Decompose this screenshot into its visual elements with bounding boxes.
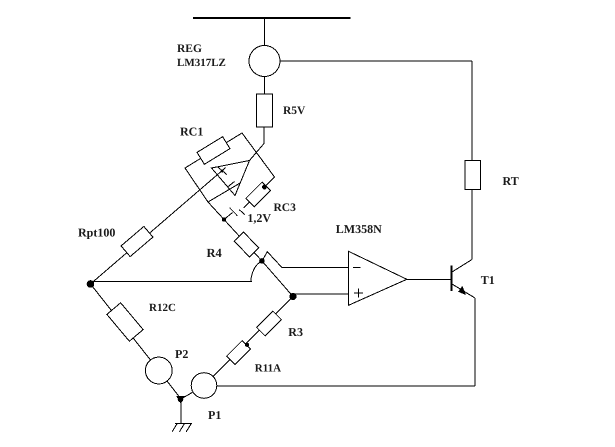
battery 1,2V lead upper wire to RC3 and loop corner bbox=[244, 177, 275, 208]
wire P2 to ground node bbox=[167, 381, 181, 399]
svg-text:P1: P1 bbox=[208, 408, 221, 422]
op-amp U2 minus mark bbox=[353, 267, 361, 269]
op-amp U1 minus input mark bbox=[218, 167, 227, 174]
wire bus to regulator bbox=[264, 18, 266, 46]
wire right rail down to RT bbox=[471, 61, 473, 161]
svg-text:Rpt100: Rpt100 bbox=[78, 226, 115, 240]
ground stem bbox=[180, 399, 182, 424]
wire node A horizontal bbox=[93, 281, 252, 283]
transistor T1 collector bbox=[452, 260, 472, 273]
wire Rpt100 diagonal to op-amp input bbox=[91, 168, 226, 284]
resistor RT bbox=[465, 161, 481, 190]
wire node1 to node2 bbox=[262, 261, 293, 297]
resistor R12C bbox=[107, 303, 143, 341]
potentiometer P2 circle bbox=[145, 357, 172, 384]
resistor Rpt100 bbox=[121, 226, 153, 256]
svg-text:RT: RT bbox=[503, 174, 519, 188]
ground symbol bbox=[175, 423, 192, 425]
op-amp U1 plus input mark bbox=[228, 182, 235, 188]
wire RT to collector elbow bbox=[471, 190, 473, 260]
wire rail corner to node1 bbox=[208, 202, 262, 261]
svg-text:R4: R4 bbox=[207, 246, 223, 260]
wire minus input horizontal bbox=[282, 267, 348, 269]
wire node A to R12C to P2 bbox=[91, 284, 151, 360]
ground node dot bbox=[178, 397, 184, 403]
resistor R11A bbox=[227, 341, 251, 365]
wire R5V down bbox=[263, 127, 265, 144]
wire emitter down bbox=[474, 298, 476, 386]
svg-text:R3: R3 bbox=[288, 325, 303, 339]
svg-text:P2: P2 bbox=[175, 347, 188, 361]
junction dot RC3 top bbox=[262, 185, 267, 190]
wire regulator to R5V bbox=[264, 77, 266, 95]
svg-text:RC3: RC3 bbox=[274, 202, 297, 214]
op-amp U1 triangle bbox=[212, 161, 250, 196]
wire to op-amp U1 output bbox=[250, 144, 265, 161]
op-amp U2 plus mark bbox=[354, 292, 363, 294]
resistor R4 bbox=[234, 232, 259, 257]
wire op-amp output to base bbox=[407, 278, 452, 280]
wire arc to node1 bbox=[251, 261, 262, 281]
node A dot bbox=[87, 280, 95, 288]
resistor RC3 bbox=[246, 182, 271, 207]
arrow at ground node bbox=[176, 396, 185, 403]
transistor T1 base bar bbox=[451, 266, 453, 292]
svg-text:RC1: RC1 bbox=[180, 125, 203, 139]
svg-text:LM358N: LM358N bbox=[336, 222, 382, 236]
op-amp U2 LM358N triangle bbox=[348, 251, 407, 305]
junction dot R11A-R3 bbox=[245, 343, 249, 347]
wire notch node1 to minus line bbox=[262, 252, 282, 268]
top supply bus bbox=[193, 17, 351, 19]
resistor R5V bbox=[257, 94, 273, 127]
svg-text:LM317LZ: LM317LZ bbox=[177, 57, 226, 69]
battery 1,2V long plate bbox=[230, 208, 238, 216]
svg-text:R12C: R12C bbox=[149, 302, 176, 314]
svg-text:T1: T1 bbox=[481, 273, 495, 287]
svg-text:R11A: R11A bbox=[255, 363, 281, 375]
battery 1,2V short plate bbox=[239, 210, 245, 215]
svg-text:R5V: R5V bbox=[283, 105, 306, 117]
svg-text:REG: REG bbox=[177, 43, 202, 55]
node N1 dot bbox=[259, 258, 265, 264]
wire regulator to right rail bbox=[280, 60, 472, 62]
transistor T1 emitter arrow bbox=[458, 286, 466, 295]
wire P1 to node2 chain bbox=[213, 297, 293, 377]
wire plus input horizontal bbox=[293, 293, 348, 295]
wire loop lower-right stub bbox=[208, 183, 241, 203]
resistor R3 bbox=[257, 311, 282, 336]
resistor RC1 bbox=[197, 137, 230, 165]
feedback loop wire quad bbox=[185, 133, 275, 202]
node N2 dot bbox=[289, 293, 296, 300]
regulator U REG LM317LZ circle bbox=[249, 46, 280, 77]
transistor T1 emitter bbox=[452, 284, 475, 298]
potentiometer P1 circle bbox=[191, 373, 217, 399]
junction dot battery-rail bbox=[222, 217, 226, 221]
wire bottom return bbox=[217, 385, 475, 387]
wire ground node to P1 bbox=[181, 392, 193, 399]
battery 1,2V lead lower bbox=[224, 213, 233, 220]
svg-text:1,2V: 1,2V bbox=[247, 211, 271, 225]
